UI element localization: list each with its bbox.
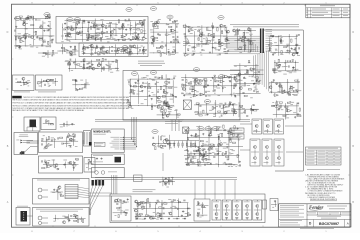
resistor R219: [203, 144, 206, 145]
label text T68: [74, 18, 77, 21]
label text T333: [48, 85, 50, 88]
capacitor C141: [41, 160, 43, 162]
label text T476: [75, 145, 78, 148]
wire W128: [73, 161, 75, 171]
resistor R193: [50, 124, 53, 125]
resistor R243: [137, 203, 138, 206]
label text T586: [117, 209, 120, 212]
label text T255: [278, 70, 281, 73]
ground G19: [90, 36, 92, 39]
ground G68: [75, 78, 77, 81]
diode D48: [202, 155, 204, 157]
capacitor C64: [249, 30, 251, 32]
resistor R78: [207, 41, 210, 42]
label text T378: [131, 107, 134, 110]
diode D49: [187, 138, 189, 140]
label text T327: [28, 85, 30, 88]
module lower box: [92, 154, 125, 165]
transistor Q90: [63, 221, 66, 224]
driver bank wires: [240, 123, 252, 125]
diode D11: [153, 40, 155, 42]
label text T382: [165, 92, 168, 95]
resistor R81: [200, 32, 203, 33]
label text T4: [16, 35, 19, 38]
label text T454: [229, 101, 232, 104]
resistor R129: [254, 110, 257, 111]
label text T73: [112, 37, 116, 40]
resistor R161: [166, 104, 167, 107]
label text T12: [25, 45, 28, 48]
label text T417: [208, 95, 211, 98]
capacitor C165: [164, 178, 166, 180]
label text T279: [279, 82, 281, 85]
capacitor C65: [244, 37, 246, 39]
resistor R185: [229, 102, 230, 105]
wire W120: [65, 138, 67, 147]
label text T105: [99, 32, 103, 35]
line cord connector box: [24, 117, 40, 131]
sheet note under title block: [300, 227, 334, 230]
label text T486: [76, 159, 79, 162]
node N15 balloon: [204, 100, 210, 104]
label text T180: [224, 50, 226, 53]
resistor R1: [15, 37, 16, 40]
ground G73: [151, 97, 153, 100]
transistor Q73: [138, 202, 141, 205]
label text T593: [136, 210, 138, 213]
wire bus in cluster W70: [234, 65, 259, 67]
transistor Q69: [266, 157, 269, 160]
label text T113: [135, 47, 139, 50]
label text T498: [161, 134, 163, 137]
transistor Q59: [165, 138, 168, 141]
op-amp U46: [209, 148, 213, 151]
wire W130: [87, 162, 89, 170]
node N7 balloon: [122, 46, 128, 50]
label text T555: [206, 144, 209, 147]
ground G116: [181, 214, 183, 217]
label text T349: [88, 66, 92, 69]
label text T592: [182, 217, 185, 220]
resistor R147: [160, 86, 161, 89]
label text T550: [232, 130, 235, 133]
wire W26: [108, 46, 110, 53]
driver transistor bank row 1: [252, 119, 262, 134]
resistor R124: [248, 89, 251, 90]
capacitor C86: [258, 71, 260, 73]
op-amp U51: [204, 154, 208, 157]
op-amp U40: [194, 94, 198, 97]
closing line bottom of right box: [275, 170, 303, 172]
capacitor C12: [108, 24, 110, 26]
resistor R55: [61, 47, 64, 48]
label text T600: [164, 201, 166, 204]
capacitor C23: [142, 22, 144, 24]
label text T463: [176, 116, 179, 119]
label text T201: [192, 50, 196, 53]
label text T472: [51, 137, 54, 140]
label text T125: [82, 50, 84, 53]
diode D7: [76, 24, 78, 26]
label text T195: [192, 29, 194, 32]
resistor R48: [126, 47, 127, 50]
label text T481: [64, 142, 67, 145]
wire W4: [33, 16, 35, 45]
label text T559: [207, 158, 210, 161]
label text T630: [52, 191, 55, 194]
resistor R85: [237, 31, 238, 34]
resistor R110: [294, 94, 297, 95]
resistor R149: [148, 87, 151, 88]
capacitor C103: [116, 60, 118, 62]
label text T541: [231, 165, 233, 168]
label text T367: [141, 102, 144, 105]
resistor R237: [169, 181, 170, 184]
wire W19: [135, 22, 137, 37]
label text T198: [200, 54, 202, 57]
module jack box: [92, 168, 125, 178]
label text T220: [234, 34, 236, 37]
output sub-box 2: [194, 199, 210, 221]
label text T557: [229, 152, 231, 155]
resistor R57: [43, 52, 46, 53]
capacitor C10: [41, 44, 43, 46]
label text T415: [198, 78, 201, 81]
resistor R158: [158, 101, 161, 102]
label text T112: [125, 47, 128, 50]
label text T484: [54, 163, 56, 166]
ground G25: [100, 47, 102, 50]
wire W72: [255, 64, 257, 90]
label text T226: [235, 48, 237, 51]
resistor R45: [82, 49, 85, 50]
label text T267: [292, 93, 294, 96]
ground G91: [71, 122, 73, 125]
capacitor C108: [168, 81, 170, 83]
resistor R6: [17, 45, 20, 46]
resistor R79: [206, 38, 207, 41]
wire W5: [42, 21, 44, 47]
wire W9: [66, 18, 68, 41]
label text T467: [47, 119, 49, 122]
label text T90: [95, 32, 97, 35]
label text T292: [291, 101, 294, 104]
footswitch logic box 2: [36, 75, 63, 90]
label text T535: [238, 139, 240, 142]
label text T511: [231, 136, 234, 139]
capacitor C93: [246, 115, 248, 117]
label text T178: [183, 40, 186, 43]
capacitor C112: [128, 81, 130, 83]
wire W58: [274, 60, 276, 74]
capacitor C80: [280, 85, 282, 87]
resistor R120: [287, 102, 290, 103]
op-amp U48: [196, 134, 200, 137]
label text T429: [189, 88, 192, 91]
capacitor C41: [164, 44, 166, 46]
label text T20: [49, 35, 53, 38]
diode D12: [151, 42, 153, 44]
diode D40: [226, 112, 228, 114]
transistor Q19: [133, 45, 136, 48]
capacitor C104: [88, 62, 90, 64]
ground G32: [218, 40, 220, 43]
label text T572: [193, 150, 196, 153]
zone tick marks top/bottom: [52, 4, 54, 6]
op-amp U53: [118, 199, 122, 202]
resistor R160: [132, 89, 133, 92]
label text T528: [233, 129, 235, 132]
ground G39: [287, 49, 289, 52]
label text T8: [25, 22, 28, 25]
preamp footswitch title: [37, 179, 80, 182]
resistor R194: [60, 137, 63, 138]
line cord connector plug: [30, 120, 37, 128]
op-amp U21: [225, 39, 229, 42]
resistor R191: [160, 110, 163, 111]
ground G118: [182, 209, 184, 212]
ground G105: [237, 127, 239, 130]
label text T262: [289, 71, 292, 74]
transistor Q66: [254, 146, 257, 149]
node N12 balloon: [150, 71, 156, 75]
label text T124: [102, 45, 104, 48]
label text T133: [130, 52, 133, 55]
capacitor C28: [86, 39, 88, 41]
wire W55: [288, 34, 290, 54]
capacitor C69: [289, 49, 291, 51]
label text T44: [137, 27, 139, 30]
label text T29: [25, 28, 28, 31]
wire bus in cluster W122: [60, 124, 75, 126]
label text T35: [23, 19, 26, 22]
label text T339: [102, 67, 105, 70]
label text T638: [53, 220, 55, 223]
title block info row: [307, 211, 351, 213]
op-amp U50: [218, 144, 222, 147]
resistor R133: [43, 80, 46, 81]
capacitor C6: [34, 19, 36, 21]
label text T157: [172, 53, 175, 56]
ground G6: [25, 36, 27, 39]
capacitor C81: [279, 106, 281, 108]
ground G70: [130, 84, 132, 87]
label text T238: [286, 51, 290, 54]
label text T375: [158, 103, 161, 106]
label text T594: [149, 201, 151, 204]
capacitor C66: [238, 38, 240, 40]
ground G86: [234, 75, 236, 78]
resistor R126: [244, 95, 247, 96]
label text T202: [203, 37, 205, 40]
wire bus in cluster W157: [196, 204, 208, 206]
label text T266: [287, 81, 289, 84]
capacitor C118: [213, 89, 215, 91]
label text T86: [127, 24, 129, 27]
label text T445: [219, 102, 222, 105]
label text T48: [134, 31, 137, 34]
op-amp U42: [223, 105, 227, 108]
wire W68: [284, 103, 286, 119]
label text T626: [203, 206, 206, 209]
capacitor C84: [242, 91, 244, 93]
label text T60: [106, 22, 110, 25]
capacitor C67: [244, 43, 246, 45]
label text T580: [168, 179, 171, 182]
label text T314: [244, 65, 247, 68]
loudspeaker box: [14, 133, 38, 155]
resistor R170: [204, 79, 207, 80]
label text T285: [286, 113, 289, 116]
capacitor C35: [83, 51, 85, 53]
capacitor C91: [252, 108, 254, 110]
capacitor C129: [219, 105, 221, 107]
label text T101: [73, 21, 75, 24]
capacitor C88: [258, 81, 260, 83]
capacitor C183: [197, 202, 199, 204]
resistor R159: [163, 89, 164, 92]
label text T119: [138, 51, 140, 54]
capacitor C8: [49, 16, 51, 18]
transistor Q22: [69, 51, 72, 54]
resistor R211: [237, 154, 238, 157]
label text T538: [184, 149, 186, 152]
label text T273: [284, 90, 287, 93]
wire W25: [102, 46, 104, 53]
ground G27: [157, 32, 159, 35]
ground G21: [136, 35, 138, 38]
label text T460: [162, 114, 164, 117]
label text T625: [197, 208, 200, 211]
capacitor C15: [141, 23, 143, 25]
resistor R130: [245, 110, 246, 113]
capacitor C90: [238, 78, 240, 80]
wire W33: [62, 44, 64, 54]
label text T291: [277, 100, 279, 103]
label text T136: [73, 53, 77, 56]
svg-text:Fender: Fender: [309, 206, 324, 211]
wire W24: [94, 47, 96, 54]
label text T169: [170, 53, 172, 56]
diode D8: [110, 22, 112, 24]
label text T94: [82, 20, 85, 23]
resistor R177: [186, 80, 187, 83]
capacitor C168: [175, 206, 177, 208]
label text T284: [281, 108, 284, 111]
resistor R152: [162, 96, 165, 97]
op-amp U2: [20, 40, 24, 43]
label text T426: [229, 79, 231, 82]
resistor R203: [163, 146, 166, 147]
label text T41: [107, 37, 110, 40]
resistor R249: [188, 213, 189, 216]
label text T591: [157, 211, 159, 214]
ground G45: [272, 34, 274, 37]
capacitor C117: [182, 78, 184, 80]
capacitor C73: [280, 41, 282, 43]
output transistor cells: [212, 200, 221, 220]
ground G47: [292, 66, 294, 69]
resistor R34: [87, 37, 90, 38]
label text T25: [19, 48, 22, 51]
resistor R73: [213, 33, 214, 36]
label text T425: [214, 92, 216, 95]
diode D52: [201, 145, 203, 147]
capacitor C18: [96, 28, 98, 30]
wire W118: [45, 137, 47, 148]
wire W98: [172, 80, 174, 103]
wire bus in cluster W48: [235, 29, 256, 31]
transistor Q57: [160, 145, 163, 148]
label text T507: [232, 149, 235, 152]
label text T576: [159, 181, 161, 184]
resistor R53: [74, 46, 75, 49]
ground G87: [234, 94, 236, 97]
label text T519: [209, 152, 211, 155]
capacitor C159: [192, 156, 194, 158]
resistor R63: [154, 22, 157, 23]
resistor R89: [244, 46, 245, 49]
label text T558: [228, 139, 231, 142]
resistor R256: [78, 219, 79, 222]
wire bus in cluster W61: [269, 82, 300, 84]
label text T66: [132, 33, 135, 36]
label text T542: [209, 134, 212, 137]
transistor Q43: [97, 64, 100, 67]
ground G124: [176, 217, 178, 220]
label text T364: [132, 92, 135, 95]
label text T155: [161, 41, 163, 44]
label text T466: [46, 120, 49, 123]
resistor R50: [104, 51, 105, 54]
resistor R131: [240, 105, 243, 106]
speaker output plugs: [92, 180, 94, 186]
label text T480: [69, 144, 71, 147]
wire W94: [138, 75, 140, 104]
chassis square with X: [183, 100, 191, 110]
svg-text:REPLACE ONLY WITH SAME TYPE CO: REPLACE ONLY WITH SAME TYPE COMPONENTS A…: [12, 109, 84, 112]
label text T321: [253, 104, 255, 107]
resistor R113: [285, 106, 288, 107]
capacitor C20: [83, 20, 85, 22]
op-amp U18: [184, 25, 188, 28]
wire W140: [237, 138, 239, 164]
module subtitle: [93, 133, 106, 136]
node N11 balloon: [131, 72, 137, 76]
capacitor C105: [142, 82, 144, 84]
wire bus in cluster W134: [185, 129, 238, 131]
label text T152: [155, 21, 158, 24]
transistor Q34: [269, 86, 272, 89]
ground G3: [48, 28, 50, 31]
label text T145: [166, 23, 170, 26]
op-amp U19: [185, 53, 189, 56]
label text T34: [37, 19, 41, 22]
label text T405: [157, 99, 160, 102]
resistor R58: [160, 53, 161, 56]
label text T54: [126, 20, 129, 23]
preamp section box: [56, 17, 148, 44]
ground G122: [160, 217, 162, 220]
ground G57: [253, 82, 255, 85]
label text T342: [106, 64, 108, 67]
module dark component: [115, 157, 122, 163]
ground G89: [234, 108, 236, 111]
rectifier box: [39, 156, 83, 173]
resistor R204: [155, 147, 156, 150]
label text T458: [213, 113, 215, 116]
label text T334: [82, 67, 85, 70]
